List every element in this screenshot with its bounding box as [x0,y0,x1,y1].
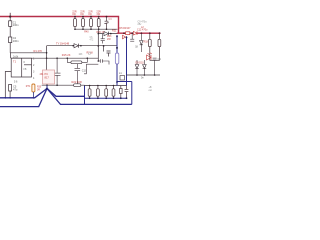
svg-text:C12 470u: C12 470u [137,29,148,32]
inductor L3 small body [120,86,123,99]
node: dot (33.4,97.8) [33,97,35,99]
LED D11 (red) indicator [147,53,152,60]
capacitor C4 small below y33.6 [101,34,105,44]
node dots on output ground rail [89,97,128,99]
resistor R2 body [74,17,77,30]
wire: horizontal y=33.6 to right rail [98,33,117,35]
node: star ground point [46,88,48,90]
resistor R17 body [148,33,151,60]
wire: vertical x46.6 from mid rail down to optocoupler [46,46,48,70]
svg-text:431: 431 [40,73,45,76]
node D: junction (95.6,45.7) [97,45,99,47]
diode D7 red small below rail [123,35,126,39]
wire: continuation below FR1 (blue) [116,64,118,86]
resistor R3 body [82,17,85,30]
wire: left horizontal run y=52.8 [10,52,46,54]
capacitor C12 body [88,86,91,99]
wire: control rail y=58.2 [11,57,98,59]
capacitor C8 below rail at x132 [130,33,134,41]
node A: bus junction x10 [9,16,11,18]
wire: stub above bus at x10 [9,13,11,17]
optocoupler U1 box [43,70,55,84]
resistor R19 body [158,33,161,58]
svg-text:out: out [149,89,153,92]
capacitor C14 body [105,86,108,99]
transistor Q2 blob [104,46,111,57]
wire: primary return vertical x5.3 [5,72,11,98]
node: (103.6,45.9) [103,45,105,47]
diode D1 on mid wire [74,44,78,48]
svg-text:PC: PC [45,72,49,76]
svg-text:R21: R21 [112,29,117,32]
capacitor C3 (polarized, slant) [104,17,108,30]
transformer T1 box [11,58,31,77]
node dots on sub-bus [74,28,107,30]
svg-text:D5 FR107: D5 FR107 [120,27,132,30]
node dots on y75 [136,74,155,76]
wire: secondary sense rail y=85.2 [42,84,85,86]
diode D6 vertical at x141.3 [140,33,143,52]
svg-text:R22 10R: R22 10R [72,80,82,84]
capacitor C5 bottom left [9,85,12,98]
node: (126.5,37.5) [126,37,128,39]
capacitor C10 below R15 [75,64,81,85]
svg-text:817: 817 [45,76,50,80]
svg-text:0R: 0R [37,89,40,91]
svg-text:100n: 100n [13,39,19,43]
capacitor C2 body [9,37,12,53]
resistor R5 body [97,17,100,30]
diode D2 on y=33.6 [104,32,108,36]
wire: mid horizontal y=45.7 to right [47,45,117,47]
capacitor C7 horizontal [98,59,109,64]
svg-text:RT1: RT1 [26,85,31,88]
svg-text:R40: R40 [84,31,89,34]
resistor R22 on sense rail [74,84,81,87]
node: junction (95.6,33.6) [98,33,100,35]
svg-text:47u: 47u [13,87,18,91]
svg-text:D9 D10: D9 D10 [136,62,145,65]
fusible link FR1 body (light purple rounded) [115,53,118,64]
node dots output rail [89,85,115,87]
node: (117,82) [116,81,118,83]
wire: link y=60.4 [150,58,160,60]
capacitor C11 beside optocoupler [54,58,61,85]
svg-text:TY 1N4148: TY 1N4148 [56,42,70,46]
svg-text:R1 47K: R1 47K [34,49,43,53]
wire: short vertical into transformer top [10,53,12,58]
zener D9 [135,60,139,75]
output filter box left edge (blue) [84,86,86,105]
node B: junction (46.6,52.8) [46,52,48,54]
node: dot (10.1,97.8) [9,97,11,99]
wire: secondary dc line y=75 (dark) [127,74,161,76]
node: bus dots for R2-R5 and C3 [74,16,107,18]
resistor R15 branch below rail [67,58,87,64]
wire: HV DC bus (red) top rail with right corner drop [0,17,161,34]
wire: star point riser (blue) [46,85,48,88]
wire: primary ground bus upper (blue) with rise to star point [0,89,47,98]
wire: RT1 lead down [32,92,34,98]
capacitor C1 body [9,17,12,38]
svg-text:FB: FB [24,69,27,71]
node: dot (5.3,97.8) [4,97,6,99]
diode D5 red on rail [133,31,137,35]
node dots on control rail [56,57,88,59]
node: (117,36.5) [116,36,118,38]
zener D10 [143,60,147,75]
capacitor C13 body [97,86,100,99]
capacitor C16 small bars [125,86,129,99]
node dots on right red rail [123,32,160,34]
svg-text:R18: R18 [144,41,149,44]
node: junction (110.8,33.6) [110,33,112,35]
wire: secondary ground branch lower / output box bottom (blue) [47,89,132,105]
svg-text:1K: 1K [135,46,138,49]
node: (117,47.9) [116,47,118,49]
svg-text:C7: C7 [88,52,92,56]
resistor R4 body [90,17,93,30]
wire: output ground rail inside box (blue) [85,97,127,99]
wire: output top rail y=85.5 [85,85,127,87]
capacitor C15 body [112,86,115,99]
capacitor C17 bars [153,58,157,75]
inductor L1 on box top edge [120,76,125,81]
wire: sub-bus y=29.2 under snubber resistors [75,28,118,30]
svg-text:R15 2K: R15 2K [62,53,71,57]
node: (95.6,61) junction [98,60,100,62]
node: diode lead dots [72,45,74,47]
wire: vertical x95.6 from sub-bus down [97,29,99,61]
wire: primary ground bus lower (blue) [0,89,47,107]
fuse F2 on red rail [126,32,130,35]
background [0,0,165,110]
node C: junction (46.6,58.2) [46,57,48,59]
output filter box right edge (blue) [131,82,133,105]
wire: secondary rectifier rail vertical x117 (blue) [116,35,118,53]
node dots on sense rail [46,84,58,86]
svg-text:R30: R30 [37,87,42,89]
wire: secondary ground branch upper (blue) [47,89,85,97]
output filter box top-right edge (blue) [117,81,132,83]
svg-text:100n: 100n [13,23,19,27]
wire: red stub to blue rail [117,32,119,34]
wire: cap branch x86.3 small [84,64,98,74]
thermistor RT1 (orange) [32,84,35,92]
wire: secondary rail vertical x126.5 (blue) [126,36,128,85]
